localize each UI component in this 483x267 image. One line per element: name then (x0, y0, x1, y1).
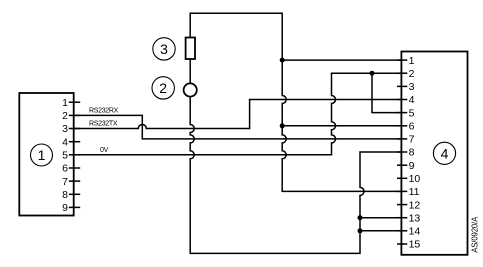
connector 1 pin numbers 1-9 (62, 97, 68, 214)
drawing number AS/0920/A (vertical) (470, 216, 479, 253)
junction node at pin 1 row (280, 58, 285, 63)
svg-text:2: 2 (62, 110, 68, 122)
svg-text:6: 6 (409, 121, 415, 133)
svg-text:8: 8 (409, 147, 415, 159)
svg-text:11: 11 (409, 186, 420, 198)
svg-text:AS/0920/A: AS/0920/A (470, 216, 479, 253)
svg-text:5: 5 (409, 107, 415, 119)
svg-text:1: 1 (409, 55, 415, 67)
svg-text:RS232RX: RS232RX (89, 107, 119, 114)
svg-text:3: 3 (409, 81, 415, 93)
svg-text:9: 9 (409, 160, 415, 172)
svg-text:2: 2 (159, 80, 167, 96)
item label circle 2 (152, 77, 174, 99)
resistor R (item 3) (186, 38, 195, 60)
wire: 0V from connector 1 pin 5 up to connector 4 pin 2 (hops over rows 7, 6, 4) (74, 73, 402, 155)
svg-text:7: 7 (62, 176, 68, 188)
svg-text:3: 3 (160, 41, 168, 57)
svg-text:4: 4 (409, 94, 415, 106)
wire: branch to connector 4 pin 13 (360, 217, 401, 219)
item label circle 1 (31, 144, 53, 166)
junction node at pin 6 row (280, 123, 285, 128)
wire: lamp bottom down (hops over TX, RX, 0V rows), bottom bus, up to connector 4 pin 8 (190, 97, 401, 254)
wire: 0V branch down to connector 4 pin 5 (plain crossing over row 4) (372, 73, 401, 112)
junction node at pin 14 row (358, 228, 363, 233)
svg-text:13: 13 (409, 212, 421, 224)
svg-text:1: 1 (38, 147, 46, 163)
wire: resistor bottom to lamp top (189, 59, 191, 83)
item label circle 3 (153, 38, 175, 60)
item label circle 4 (433, 142, 455, 164)
svg-text:2: 2 (409, 68, 415, 80)
junction node at pin 13 row (358, 215, 363, 220)
wire: junction to connector 4 pin 6 (282, 125, 401, 127)
connector 4 pin ticks (pins 1-15) (397, 60, 407, 244)
svg-text:4: 4 (62, 136, 68, 148)
junction node at pin 2 row (370, 71, 375, 76)
svg-text:8: 8 (62, 189, 68, 201)
svg-text:12: 12 (409, 199, 421, 211)
svg-text:1: 1 (62, 97, 68, 109)
svg-text:3: 3 (62, 123, 68, 135)
connector 1 pin ticks (pins 1-9) (69, 102, 80, 207)
connector 4 (15-pin) box (401, 52, 467, 255)
svg-text:6: 6 (62, 163, 68, 175)
lamp/fuse circle symbol (item 2) (184, 83, 197, 96)
wire: top bus from resistor top to connector 4 pin 11 (with hops at rows 4, 7, 0V) (190, 13, 401, 191)
svg-text:15: 15 (409, 239, 421, 251)
svg-text:0V: 0V (100, 147, 109, 154)
wire: RS232RX from connector 1 pin 2 to connector 4 pin 7 (74, 115, 402, 138)
wire: branch to connector 4 pin 14 (360, 230, 401, 232)
connector 1 (9-pin) box (19, 93, 73, 216)
svg-text:14: 14 (409, 226, 421, 238)
svg-text:9: 9 (62, 202, 68, 214)
svg-text:10: 10 (409, 173, 421, 185)
wire: RS232TX from connector 1 pin 3 to connector 4 pin 4 (hop over RX drop at x=142) (74, 100, 402, 129)
wire: junction to connector 4 pin 1 (282, 59, 401, 61)
svg-text:4: 4 (441, 145, 449, 161)
svg-text:7: 7 (409, 134, 415, 146)
svg-text:RS232TX: RS232TX (89, 120, 118, 127)
svg-text:5: 5 (62, 150, 68, 162)
connector 4 pin numbers 1-15 (409, 55, 421, 251)
